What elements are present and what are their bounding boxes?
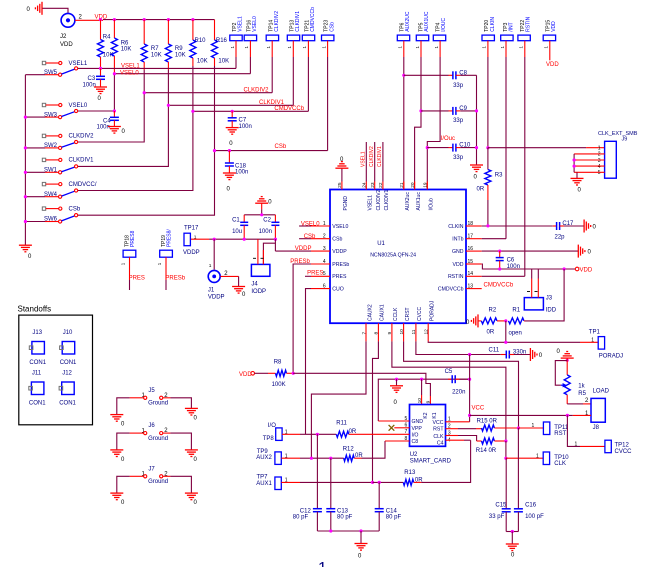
test point TP17 (VDDP) [184,226,199,246]
wire SW3 output [78,110,114,112]
node CMDVCCb R10 [191,110,194,113]
svg-text:C7: C7 [239,117,247,123]
ground 0 (J1) [232,286,245,288]
wire CAUX2 net (pin 7 to AUX2 row) [311,341,366,458]
node VDD-R4 [99,18,102,21]
svg-text:CLKDIV2: CLKDIV2 [244,88,270,94]
wire VSEL1 net (SW5 to TP2) [78,67,236,69]
pin 2 CSb (U1 left) [311,234,343,243]
pin 12 PORADJ (U1 bottom) [424,300,436,341]
svg-text:100n: 100n [239,124,252,130]
svg-text:J13: J13 [32,330,42,336]
svg-text:19: 19 [423,182,429,188]
wire J2 pin2 to VDD bus [75,19,103,21]
pin 1 VCC (U2 right) [433,417,451,426]
svg-text:I/Ouc: I/Ouc [441,136,455,142]
pin 13 CMDVCCb (U1 right) [438,283,482,292]
standoffs box [18,305,93,425]
pin 16 GND (U1 right) [452,246,482,255]
connector J9 CLK_EXT_SMB [598,131,638,178]
pin 23 CLKDIV2 (U1 top) [370,182,382,211]
capacitor C14 80pF [375,482,402,531]
wire C8/C9/C10 common to ground [476,75,478,165]
node AUX2 CAUX2 [310,457,313,460]
svg-text:21: 21 [399,182,405,188]
svg-text:100n: 100n [83,82,96,88]
switch SW6 (CSb) [25,206,80,223]
test point TP1 (PORADJ) [589,329,623,359]
svg-text:R14 0R: R14 0R [476,448,497,454]
svg-text:I/OUC: I/OUC [441,18,447,32]
svg-text:10K: 10K [197,59,208,65]
wire I/O row [306,433,337,435]
node gnd hang [395,378,398,381]
ground 0 (J7 pin2) [185,492,198,494]
switch SW1 (CLKDIV1) [25,158,94,174]
node VDD-R9 [167,18,170,21]
node CLKDIV2 R7 [143,91,146,94]
wire RSTIN (pin 14 riser to TP22) [482,275,525,277]
wire U2 pin6 VPP stub with no-connect X [389,425,410,431]
test point TP22 (RSTIN) [518,16,532,276]
pin 6 VPP (U2 left) [405,423,423,432]
node C9 gnd [475,109,478,112]
svg-text:AUX1: AUX1 [256,481,272,487]
capacitor C11 330n [489,347,531,358]
svg-text:10: 10 [399,329,405,335]
svg-text:J6: J6 [148,423,155,429]
svg-text:VCC: VCC [472,405,485,411]
svg-text:20: 20 [410,182,416,188]
jumper J7 Ground [117,466,192,493]
svg-text:J5: J5 [148,388,155,394]
svg-text:SMART_CARD: SMART_CARD [410,459,452,465]
svg-text:PORADJ: PORADJ [430,300,436,321]
svg-text:100K: 100K [272,382,286,388]
node J9 pin3 [573,158,576,161]
node CLKDIV1 R9 [167,104,170,107]
test point TP2 (VSEL1) [230,16,244,68]
svg-text:C6: C6 [507,258,515,264]
wire gnd symbol drop [396,379,398,386]
svg-text:R15 0R: R15 0R [477,419,498,425]
svg-text:GND: GND [412,419,424,425]
svg-text:CON1: CON1 [29,360,46,366]
svg-text:CAUX1: CAUX1 [380,304,386,321]
svg-text:R5: R5 [578,391,586,397]
pin 1 VSEL0 (U1 left) [311,221,349,230]
node bus-SW6 [24,220,27,223]
node CVCC corner [468,353,471,356]
wire CVCC riser [469,355,471,422]
wire pin1 VSEL0 stub [299,225,311,227]
connector U2 SMART_CARD (body) [410,405,452,465]
svg-text:CLKDIV1: CLKDIV1 [69,158,95,164]
node VDD loop [563,267,566,270]
svg-text:VSEL1: VSEL1 [238,16,244,32]
svg-text:10: 10 [417,398,423,404]
standoff J10 CON1 [60,330,77,366]
svg-text:R2: R2 [489,307,497,313]
pin 15 VDD (U1 right) [453,259,482,268]
test point TP20 (CLKIN) [482,17,496,148]
svg-text:TP11: TP11 [554,425,569,431]
pin 2 RST (U2 right) [433,424,451,433]
svg-text:CSb: CSb [329,22,335,32]
svg-text:I/O: I/O [412,432,419,438]
svg-text:100n: 100n [259,229,272,235]
wire RST to TP11 [519,427,544,429]
svg-text:J4: J4 [251,281,258,287]
svg-text:CVCC: CVCC [417,306,423,321]
svg-text:0R: 0R [477,186,485,192]
svg-text:4: 4 [598,164,601,170]
node rail C13 [329,529,332,532]
svg-text:C4: C4 [437,441,444,447]
wire PRESb row to card contact K1 [293,373,430,396]
test point TP5 (AUX1UC) [415,11,431,189]
svg-text:PRES: PRES [307,271,323,277]
wire CVCC net (pin 11 to C11 and U2 VCC) [416,341,501,354]
capacitor C13 80pF [326,458,352,531]
svg-text:1: 1 [575,441,578,447]
svg-text:CLKIN: CLKIN [490,17,496,32]
resistor R12 0R (AUX2) [343,441,410,461]
ground 0 (J9) [571,177,584,179]
svg-text:13: 13 [468,283,474,289]
svg-text:SW4: SW4 [44,192,58,198]
node RST junction [517,426,520,429]
svg-text:3: 3 [598,158,601,164]
svg-text:330n: 330n [513,349,526,355]
test point TP12 (CVCC) [575,440,633,455]
svg-text:R13: R13 [404,470,416,476]
wire C12/C13/C14 ground rail [317,530,379,532]
svg-text:CLKDIV1: CLKDIV1 [377,146,383,167]
svg-text:SW1: SW1 [44,168,58,174]
wire pin4 PRESb stub and riser [293,264,311,373]
svg-text:AUX2UC: AUX2UC [405,11,411,32]
svg-text:CON1: CON1 [60,360,77,366]
switch SW2 (CLKDIV2) [25,134,94,150]
svg-text:TP12: TP12 [615,442,630,448]
pin 20 AUX1uc (U1 top) [410,182,422,211]
wire CLKIN net (pin 18 to C17) [482,225,553,227]
test point TP15 (VDD) [543,20,557,61]
svg-text:17: 17 [468,234,474,240]
svg-text:1: 1 [591,337,594,343]
svg-text:10K: 10K [218,59,229,65]
svg-text:J10: J10 [63,330,73,336]
svg-text:J1: J1 [208,287,215,293]
svg-text:AUX2uc: AUX2uc [405,192,411,211]
wire R6 to SW3 junction [113,74,115,111]
node I/O C12 [316,433,319,436]
svg-text:PRES8/: PRES8/ [167,229,173,247]
node C10 gnd [475,146,478,149]
svg-text:1: 1 [209,263,212,269]
svg-text:R12: R12 [343,446,355,452]
node VDDP C1 [243,238,246,241]
svg-text:22p: 22p [555,234,566,240]
test point TP23 (CSb) [321,20,335,151]
resistor R9 10K (CLKDIV1 pullup) [165,20,185,70]
svg-text:VDD: VDD [546,62,559,68]
node PORADJ riser [504,341,507,344]
svg-text:PRES: PRES [129,275,145,281]
pin 5 GND (U2 left) [405,416,424,425]
wire J9 pins 2-5 bracket [574,154,605,172]
svg-text:CLKDIV2: CLKDIV2 [274,11,280,32]
svg-text:C4: C4 [103,118,111,124]
capacitor C4 100n [97,111,119,131]
svg-text:10K: 10K [175,52,186,58]
svg-text:CLKDIV2: CLKDIV2 [69,134,95,140]
ground 0 (J6 pin2) [185,449,198,451]
ground 0 (C17, sideways) [583,220,585,233]
node VDD-R6 [113,18,116,21]
svg-text:100 pF: 100 pF [525,514,544,520]
svg-text:CLKDIV1: CLKDIV1 [384,189,390,210]
wire CMDVCCb net [193,110,309,112]
svg-text:9: 9 [387,332,393,335]
wire R10 down to SW4 [78,66,193,191]
node VSEL1 R4/C3 [99,67,102,70]
resistor R1 open [509,307,525,336]
svg-text:C8: C8 [412,439,419,445]
svg-text:12: 12 [424,329,430,335]
svg-text:C17: C17 [562,221,574,227]
ground 0 (C15/C16) [506,543,519,545]
svg-text:23: 23 [370,182,376,188]
svg-text:CCLK: CCLK [393,307,399,321]
test point TP10 (CLK) [536,452,569,467]
svg-text:IODP: IODP [251,289,266,295]
ground 0 (C18) [223,172,236,174]
test point TP7 (AUX1) [256,475,372,490]
svg-text:J7: J7 [148,466,155,472]
wire pin5 PRES stub [305,275,311,277]
svg-text:R4: R4 [103,34,111,40]
node PRESb R8 [292,372,295,375]
svg-text:VDDP: VDDP [183,250,200,256]
svg-text:TP7: TP7 [257,475,269,481]
svg-text:VDDP: VDDP [208,295,225,301]
resistor R13 0R (AUX1) [403,440,470,485]
svg-text:CMDVCC/: CMDVCC/ [69,182,97,188]
wire AUX2 row [311,457,343,459]
svg-text:4: 4 [323,259,326,265]
node bus-SW1 [24,171,27,174]
svg-text:SW3: SW3 [44,112,58,118]
node rail drop [359,529,362,532]
node VDDP C2 [274,238,277,241]
jumper J5 Ground [117,388,192,415]
wire pin3 VDDP stub [275,250,311,252]
svg-text:Ground: Ground [148,479,168,485]
svg-text:16: 16 [468,246,474,252]
node VDD-R10 [191,18,194,21]
switch SW5 (VSEL1) [25,61,87,76]
svg-text:VSEL1: VSEL1 [121,64,140,70]
ground 0 (C4) [108,126,121,128]
svg-text:C5: C5 [445,369,453,375]
wire R5 bottom to J8 pin2 [567,403,583,405]
svg-text:INTb: INTb [452,237,463,243]
svg-text:C9: C9 [459,106,467,112]
svg-text:GND: GND [452,249,464,255]
svg-text:C15: C15 [495,503,507,509]
resistor R14 0R (CLK) [446,436,506,454]
svg-text:1: 1 [598,146,601,152]
svg-text:CVCC: CVCC [615,449,633,455]
resistor R10 10K (CMDVCCb pullup) [190,20,208,66]
test point TP19 (PRESb) [157,229,172,290]
svg-text:VDDP: VDDP [332,249,347,255]
wire R9 down to SW1 [78,70,168,166]
svg-text:SW2: SW2 [44,143,58,149]
node VDD-R7 [143,18,146,21]
svg-text:220n: 220n [452,389,465,395]
jumper J6 Ground [117,423,192,450]
pin 8 CAUX1 (U1 bottom) [374,304,386,341]
svg-text:AUX1UC: AUX1UC [424,11,430,32]
node CSb R16 [213,149,216,152]
svg-text:VSEL0: VSEL0 [301,221,320,227]
svg-text:0R: 0R [487,330,495,336]
ground 0 (pin 16, sideways) [577,245,579,258]
standoff J12 CON1 [59,371,76,407]
svg-text:CMDVCCb: CMDVCCb [484,283,514,289]
node VDDP J1 [213,238,216,241]
svg-text:CLKDIV2: CLKDIV2 [376,189,382,210]
svg-text:VDD: VDD [453,262,464,268]
resistor R11 0R (I/O) [336,420,409,437]
capacitor C12 80pF [293,434,322,531]
pin 5 PRES (U1 left) [311,271,347,280]
svg-text:80 pF: 80 pF [293,515,309,521]
wire VSEL1 stub above pin 24 [365,142,367,182]
wire switch ground bus (left) [24,75,26,246]
svg-text:VSEL1: VSEL1 [360,151,366,167]
terminal VDD (red circle, R8) [239,372,255,378]
node CLK TP10 [504,457,507,460]
svg-text:PRESb: PRESb [332,262,349,268]
svg-text:C10: C10 [459,143,471,149]
svg-text:PRES8: PRES8 [130,230,136,247]
node C15C16 drop [511,530,514,533]
op-amp U1 NCN8025A QFN-24 (chip body) [330,190,466,324]
pin 4 C4 (U2 right) [437,437,451,446]
pin 4 PRESb (U1 left) [311,259,349,268]
wire R1/R2 junction riser to PORADJ [505,321,507,342]
svg-text:0R: 0R [349,429,357,435]
pin 22 CLKDIV1 (U1 top) [378,182,390,211]
node VSEL0 R6 [113,72,116,75]
test point TP21 (CMDVCCb) [302,7,316,111]
ground 0 (J6 pin1) [110,449,123,451]
svg-text:J9: J9 [622,137,628,143]
wire CLKDIV2 net [144,92,272,94]
connector J1 VDDP (coax jack) [208,239,225,300]
wire VDD bus [103,19,215,21]
capacitor C3 100n [83,68,106,88]
svg-text:11: 11 [411,329,417,334]
svg-text:CLK_EXT_SMB: CLK_EXT_SMB [598,131,638,137]
svg-text:TP10: TP10 [554,455,569,461]
wire CAUX1 net (pin 8 to AUX1 row) [373,341,379,482]
test point TP6 (AUX2UC) [397,11,411,189]
ground 0 (C8/C9/C10) [470,164,483,166]
svg-text:22: 22 [378,182,384,188]
wire J8 pin1 row (CVCC) [470,414,573,416]
standoff J11 CON1 [29,371,46,407]
wire VDD loop down to R1 [525,269,564,321]
wire GND row (card) [378,379,469,421]
svg-text:AUX1uc: AUX1uc [416,192,422,211]
svg-text:80 pF: 80 pF [337,515,353,521]
switch SW3 (VSEL0) [25,103,87,119]
test point TP16 (VSEL0) [244,16,258,74]
wire CLKDIV1 stub above pin 22 [382,142,384,182]
node VDD C6 [498,267,501,270]
svg-text:6: 6 [323,283,326,289]
capacitor C9 33p (AUX1uc) [419,106,476,124]
svg-text:CRST: CRST [405,307,411,321]
connector J2 VDD (coax jack) [60,13,75,48]
svg-text:J2: J2 [60,34,67,40]
svg-text:VDD: VDD [239,372,252,378]
svg-text:C18: C18 [235,163,247,169]
node AUX2 C13 [329,457,332,460]
node CVCC J8 row [468,414,471,417]
svg-text:RSTIN: RSTIN [448,274,464,280]
resistor R8 100K [255,359,294,388]
wire C15/C16 ground rail [506,531,518,533]
node CLKIN R3 [486,224,489,227]
svg-text:SW6: SW6 [44,217,58,223]
ground 0 (card GND) [390,385,403,387]
wire pin2 CSb stub [299,238,311,240]
svg-text:1k: 1k [578,384,585,390]
test point TP14 (CLKDIV2) [266,11,280,93]
wire VDD net (pin 15 to J3) [482,264,577,269]
svg-text:25: 25 [337,182,343,188]
svg-text:J8: J8 [593,425,600,431]
svg-text:10K: 10K [121,47,132,53]
svg-text:33 pF: 33 pF [489,514,505,520]
wire CRST net (pin 10 to R15 junction) [404,341,519,428]
svg-text:CLKDIV1: CLKDIV1 [295,11,301,32]
svg-text:PRESb: PRESb [290,259,310,265]
svg-text:RST: RST [433,427,444,433]
svg-text:VCC: VCC [433,420,444,426]
svg-text:CMDVCCb: CMDVCCb [310,7,316,32]
capacitor C15 33pF [489,458,511,531]
pin 9 K1 (U2 top) [426,400,438,418]
svg-text:CSb: CSb [275,144,287,150]
pin 9 CCLK (U1 bottom) [387,307,399,341]
pin 7 I/O (U2 left) [405,429,419,438]
capacitor C8 33p (AUX2uc) [402,71,476,89]
test point TP18 (PRES) [121,230,136,290]
wire C2 node down to pin 3 [274,239,276,251]
svg-text:9: 9 [426,400,432,403]
pin 3 VDDP (U1 left) [311,246,347,255]
ground 0 (top-left, at J2 pin 1) [41,2,43,15]
svg-text:1: 1 [194,234,197,240]
ground 0 (R5, inverted) [557,349,574,358]
